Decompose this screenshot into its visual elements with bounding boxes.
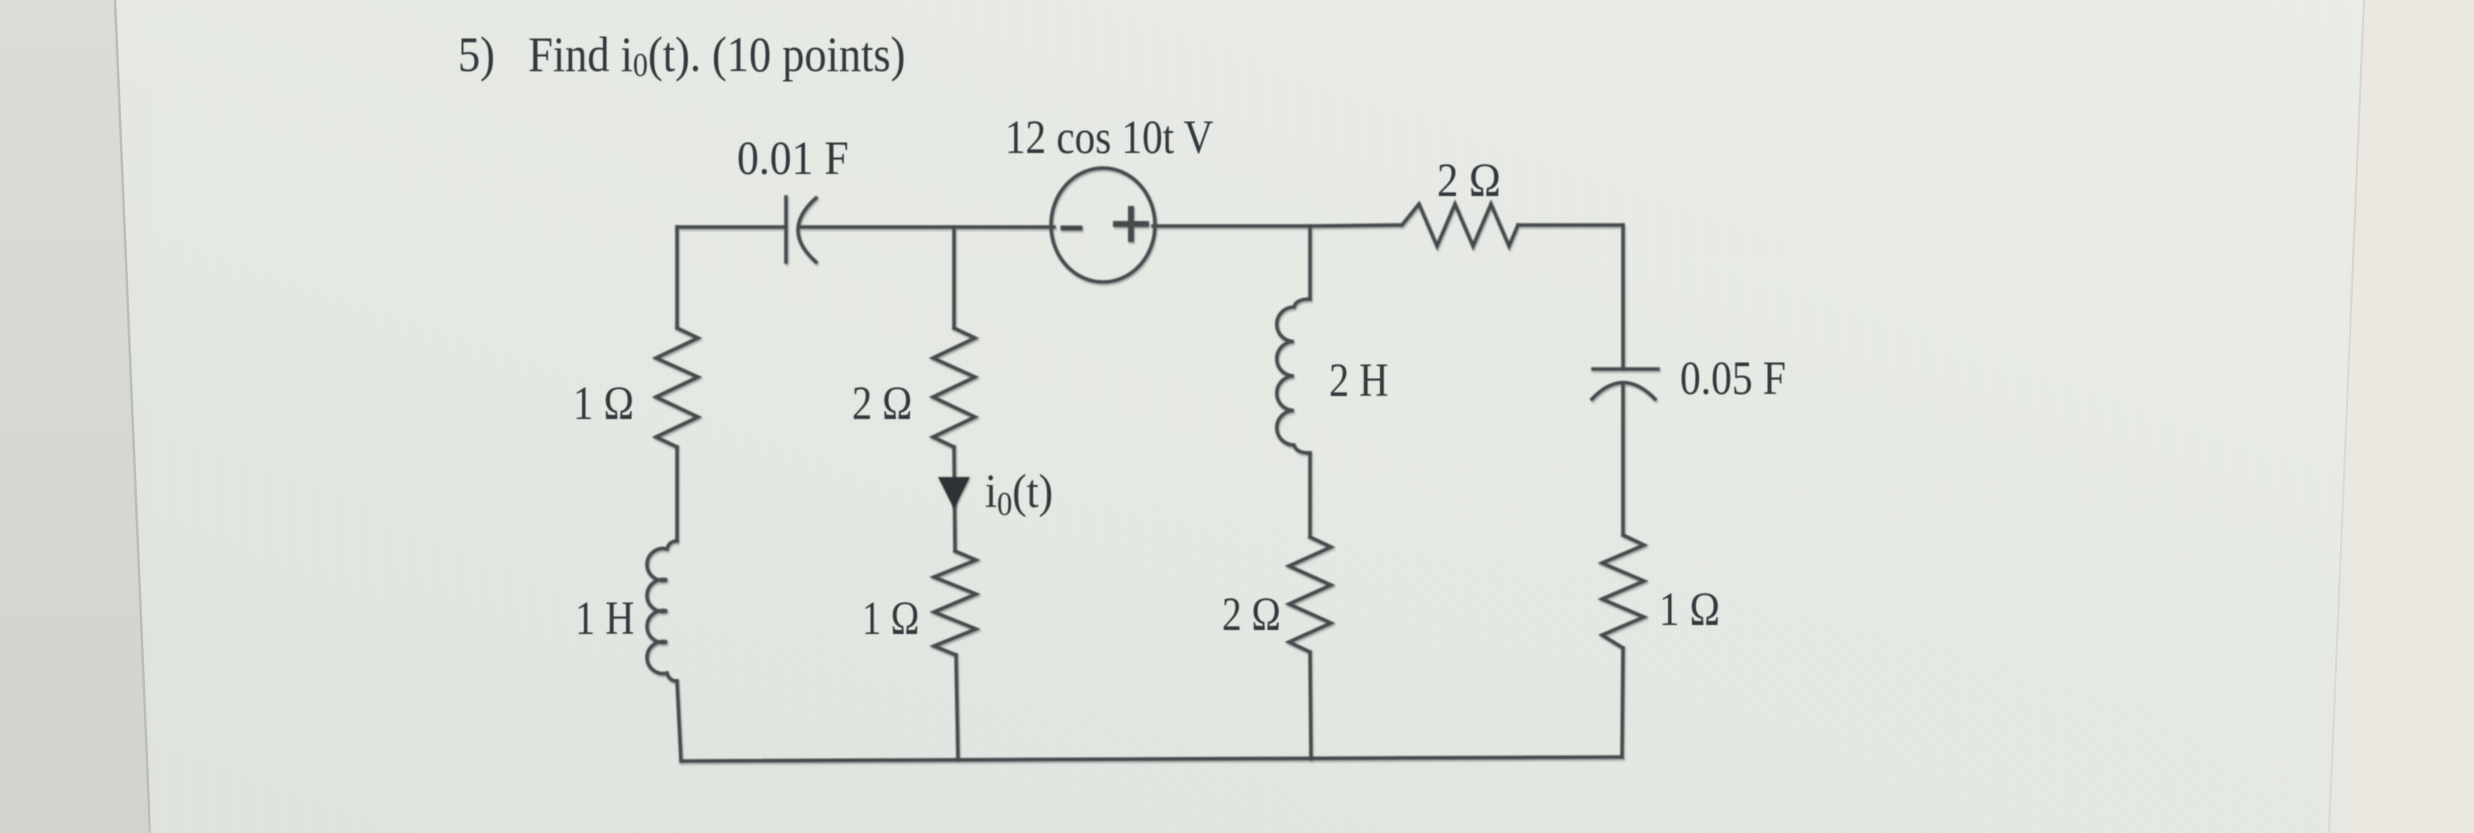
wire B4 bottom	[1622, 648, 1623, 757]
resistor R 2ohm B3 zigzag	[1289, 537, 1331, 652]
voltage source plus sign	[1116, 209, 1146, 239]
voltage source V1 circle	[1051, 168, 1155, 282]
capacitor C2 0.05F curved bottom plate	[1592, 383, 1655, 400]
bottom wire	[681, 757, 1622, 761]
right branch B4 upper wire	[1621, 225, 1625, 369]
svg-text:1 H: 1 H	[575, 592, 634, 645]
inductor L 2H coil	[1277, 299, 1310, 453]
resistor R 1ohm B4 zigzag	[1602, 535, 1644, 648]
svg-text:1 Ω: 1 Ω	[862, 592, 919, 645]
wire between R and L on B1	[675, 447, 679, 541]
svg-text:1 Ω: 1 Ω	[573, 376, 634, 430]
svg-text:1 Ω: 1 Ω	[1659, 582, 1720, 636]
left branch B1 upper wire	[675, 227, 679, 328]
wire top middle segment	[800, 225, 1054, 229]
resistor R 1ohm B2 zigzag	[934, 551, 976, 655]
branch B3 top wire	[1308, 226, 1312, 299]
svg-text:i0(t): i0(t)	[985, 464, 1053, 522]
wire B2 middle	[954, 447, 955, 551]
wire B3 middle	[1308, 453, 1312, 537]
svg-text:0.05 F: 0.05 F	[1680, 351, 1786, 405]
svg-text:2 Ω: 2 Ω	[852, 377, 912, 430]
svg-text:0.01 F: 0.01 F	[737, 131, 849, 184]
voltage source minus sign	[1063, 226, 1080, 231]
wire B2 bottom	[956, 655, 958, 760]
svg-text:2 Ω: 2 Ω	[1437, 154, 1501, 207]
resistor R-top 2ohm zigzag	[1402, 204, 1518, 246]
node B2 top	[952, 227, 956, 328]
resistor R 1ohm left zigzag	[656, 328, 698, 447]
wire B3 to resistor	[1310, 225, 1400, 226]
resistor R 2ohm B2 zigzag	[933, 328, 975, 447]
capacitor C2 0.05F top plate	[1593, 367, 1658, 371]
inductor L 1H coil	[647, 541, 677, 681]
svg-text:2 Ω: 2 Ω	[1222, 588, 1281, 640]
wire source to B3	[1153, 224, 1310, 228]
capacitor C1 0.01F right curved plate	[798, 198, 816, 262]
svg-text:2 H: 2 H	[1329, 354, 1388, 407]
svg-text:5) Find i0(t). (10 points): 5) Find i0(t). (10 points)	[458, 28, 905, 84]
wire B3 bottom	[1310, 652, 1311, 759]
wire top-left segment	[677, 225, 786, 229]
svg-text:12 cos 10t V: 12 cos 10t V	[1005, 110, 1213, 164]
current arrow io(t)	[938, 477, 970, 509]
wire B4 middle	[1621, 383, 1625, 535]
capacitor C1 0.01F left plate	[784, 197, 788, 262]
wire resistor to top-right corner	[1518, 223, 1623, 227]
wire B1 bottom	[677, 681, 681, 761]
